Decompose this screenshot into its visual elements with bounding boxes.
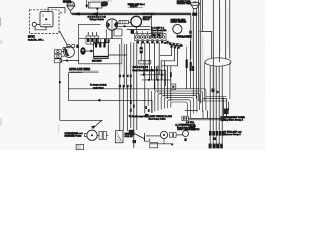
cylinder inner wires bbox=[210, 66, 222, 148]
svg-text:Serial No. 878 +: Serial No. 878 + bbox=[28, 39, 44, 42]
connector feed stub bbox=[164, 42, 170, 44]
bottom left connector bbox=[129, 130, 135, 136]
lamp feed wire bbox=[146, 135, 161, 137]
wire right side drop bbox=[190, 13, 192, 59]
right harness verticals bbox=[198, 0, 200, 101]
bottom small box bbox=[76, 144, 84, 149]
svg-text:Voltage Switch: Voltage Switch bbox=[90, 18, 105, 21]
chassis box bbox=[68, 73, 152, 113]
arrow near horn bbox=[75, 12, 79, 15]
ignition wire pair bbox=[192, 9, 194, 97]
junction dot bbox=[59, 81, 61, 83]
connector on pair bbox=[192, 13, 197, 16]
switch box bbox=[182, 116, 188, 121]
cutout relay lead bbox=[135, 27, 137, 34]
inline fuse dark bbox=[140, 47, 143, 53]
cutout relay circle bbox=[131, 16, 142, 27]
left drop wire bbox=[59, 63, 61, 121]
svg-text:AUTO-LITE WIRE: AUTO-LITE WIRE bbox=[69, 68, 90, 71]
lamp plug cap bbox=[190, 2, 199, 5]
terminal stub bbox=[60, 12, 62, 14]
battery cable bbox=[108, 54, 126, 56]
junction dot bbox=[124, 25, 126, 27]
connector dot row upper bbox=[119, 75, 132, 78]
left leg blobs bbox=[145, 106, 149, 112]
bottom wire bbox=[150, 143, 172, 145]
terminal post circle bbox=[32, 22, 36, 26]
wire to distributor bbox=[60, 120, 102, 128]
panel side verticals bbox=[187, 41, 191, 89]
cutout relay box U1 bbox=[40, 12, 53, 27]
engine enclosure box bbox=[79, 24, 122, 64]
tail lamp L1 bbox=[160, 131, 167, 138]
lighting switch cluster bbox=[101, 1, 109, 7]
svg-text:under floor: under floor bbox=[93, 87, 104, 90]
gen brush leads bbox=[111, 30, 113, 39]
regulator contact stack bbox=[86, 36, 99, 44]
starter motor M bbox=[63, 44, 79, 57]
main feed wire (double) bbox=[71, 13, 191, 14]
corner blob bbox=[224, 109, 229, 115]
harness dark segments bbox=[186, 60, 195, 72]
svg-text:Lamp: Lamp bbox=[190, 129, 196, 131]
lamp lead with arrow bbox=[86, 0, 88, 5]
short stub bbox=[185, 109, 198, 111]
svg-text:CABLES 7MM: CABLES 7MM bbox=[177, 2, 191, 5]
harness arch bundle bbox=[69, 89, 227, 119]
coil terminal pair bbox=[99, 132, 102, 140]
feeder connector dark bbox=[170, 72, 172, 77]
left connector drop bbox=[130, 101, 135, 112]
junction dot bbox=[96, 8, 98, 10]
svg-text:6-8 TAIL: 6-8 TAIL bbox=[186, 121, 195, 124]
tail lamp L2 bbox=[183, 131, 189, 137]
wire post to relay bbox=[36, 23, 40, 25]
wire gen field bbox=[127, 29, 150, 31]
svg-text:BREAKER Points: BREAKER Points bbox=[65, 134, 82, 137]
arrow on box bottom bbox=[97, 99, 101, 102]
harness corner bbox=[199, 31, 211, 58]
inline switch box bbox=[171, 84, 176, 90]
svg-text:To INSTRUMENT PANEL: To INSTRUMENT PANEL bbox=[221, 116, 246, 119]
bottom right connector bands bbox=[209, 131, 225, 148]
svg-text:RELAY: RELAY bbox=[143, 18, 150, 21]
relay core dot bbox=[45, 18, 47, 20]
svg-text:To Dash Lamp Sw: To Dash Lamp Sw bbox=[129, 116, 147, 118]
generator G bbox=[106, 19, 117, 30]
ignition switch panel box bbox=[150, 13, 152, 34]
fuse block F1 bbox=[88, 2, 102, 8]
lamp connector squares bbox=[170, 133, 173, 138]
terminal strip TB1 bbox=[131, 27, 169, 44]
svg-text:NOTE: NOTE bbox=[28, 36, 35, 39]
harness ladder bus bbox=[140, 70, 171, 80]
coil dark oval bbox=[80, 47, 85, 54]
svg-text:Rear Lamp Cable: Rear Lamp Cable bbox=[149, 117, 167, 120]
strip drop wires bbox=[130, 42, 132, 128]
ammeter block bbox=[151, 33, 162, 38]
horn H bbox=[67, 1, 75, 13]
inline connectors dark bbox=[212, 88, 215, 92]
bundle right drop bbox=[224, 98, 229, 119]
generator field coil box bbox=[119, 20, 129, 23]
starter ground wire bbox=[63, 60, 79, 62]
svg-text:MODEL: MODEL bbox=[63, 1, 72, 4]
svg-text:Fuse Block 30A: Fuse Block 30A bbox=[151, 29, 167, 32]
wire gen to cutout bbox=[118, 22, 132, 25]
battery BAT bbox=[94, 39, 109, 59]
wire relay top lead bbox=[48, 8, 65, 14]
svg-text:Harness Group 6: Harness Group 6 bbox=[224, 133, 241, 136]
ignition coil IG bbox=[115, 131, 123, 143]
stack leads up bbox=[88, 32, 96, 36]
svg-text:BATTERY: BATTERY bbox=[92, 60, 102, 63]
connector dot row lower bbox=[119, 85, 132, 88]
coil lead arrow bbox=[86, 50, 91, 52]
panel verticals bbox=[120, 44, 127, 75]
resistor block bbox=[139, 60, 151, 64]
scan smudges bbox=[0, 0, 229, 133]
relay inner contacts bbox=[42, 14, 51, 25]
wire relay bottom lead bbox=[35, 27, 46, 30]
lamp bracket bbox=[145, 136, 150, 141]
svg-text:LIGHT SWITCH: LIGHT SWITCH bbox=[171, 22, 187, 24]
lighting cylinder bbox=[205, 58, 232, 101]
arrow on feed wire bbox=[93, 12, 98, 16]
plug wires stepped bbox=[160, 47, 172, 56]
svg-text:4 6 8 6 3 1 4 8: 4 6 8 6 3 1 4 8 bbox=[133, 66, 149, 69]
diagonal from relay box bbox=[59, 31, 67, 46]
svg-text:6 8 and 4 B: 6 8 and 4 B bbox=[177, 35, 190, 38]
ignition switch S1 bbox=[173, 24, 182, 33]
distributor DIST bbox=[87, 130, 97, 140]
wire gen armature bbox=[118, 25, 150, 27]
arch feeders bbox=[155, 61, 171, 102]
ladder drop wires bbox=[144, 66, 166, 86]
junction dot bbox=[66, 60, 68, 62]
svg-text:To TAILLAMP and: To TAILLAMP and bbox=[224, 131, 242, 134]
svg-text:COIL 6V: COIL 6V bbox=[125, 136, 134, 138]
top-left dashed enclosure box bbox=[30, 10, 60, 34]
fuse holder stack bbox=[55, 50, 65, 63]
svg-text:To Starter Switch: To Starter Switch bbox=[90, 84, 107, 87]
harness connector plug bbox=[169, 42, 183, 49]
gen terminal box bbox=[114, 29, 122, 36]
